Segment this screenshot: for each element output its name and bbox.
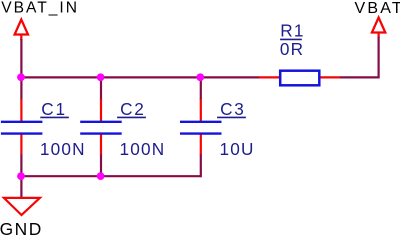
wire top horizontal [20, 76, 260, 78]
svg-text:VBAT_IN: VBAT_IN [1, 0, 79, 17]
pin C3 top [200, 99, 202, 122]
junction dot at C2 bottom [97, 172, 105, 180]
wire VBAT_IN vertical [20, 39, 22, 100]
ground symbol GND [4, 198, 40, 215]
svg-text:10U: 10U [220, 139, 255, 159]
power flag arrow VBAT_IN [15, 20, 28, 41]
junction dot at VBAT_IN / C1 top [17, 73, 25, 81]
pin R1 right [320, 76, 341, 78]
junction dot at C3 top [196, 73, 204, 81]
svg-text:C2: C2 [120, 99, 146, 119]
junction dot at C1 bottom / GND [17, 172, 25, 180]
wire C3 bottom stub [200, 154, 202, 177]
label C3 underline [217, 116, 246, 118]
wire C1 bottom to bottom rail [20, 154, 22, 177]
wire C1 to GND [20, 176, 22, 197]
pin C2 top [100, 99, 102, 122]
svg-text:R1: R1 [280, 21, 304, 41]
svg-text:100N: 100N [120, 139, 166, 159]
label C2 underline [117, 116, 146, 118]
junction dot at C2 top [97, 73, 105, 81]
power flag arrow VBAT [372, 18, 385, 39]
resistor R1 body [280, 71, 319, 86]
label R1 underline [280, 38, 302, 40]
pin C2 bottom [100, 134, 102, 155]
svg-text:VBAT: VBAT [355, 0, 400, 17]
capacitor C3 plates [180, 122, 222, 134]
pin C1 top [20, 99, 22, 122]
label C1 underline [40, 116, 69, 118]
svg-text:GND: GND [0, 219, 43, 237]
pin C3 bottom [200, 134, 202, 155]
svg-text:0R: 0R [280, 39, 304, 59]
svg-text:100N: 100N [40, 139, 86, 159]
capacitor C2 plates [80, 122, 122, 134]
svg-text:C1: C1 [41, 99, 67, 119]
wire bottom horizontal [20, 175, 202, 177]
wire C2 top stub [100, 76, 102, 100]
wire resistor right to VBAT [340, 37, 379, 77]
wire C2 bottom stub [100, 154, 102, 177]
pin C1 bottom [20, 134, 22, 155]
svg-text:C3: C3 [220, 99, 246, 119]
capacitor C1 plates [1, 122, 43, 134]
pin R1 left [259, 76, 280, 78]
wire C3 top stub [200, 76, 202, 100]
